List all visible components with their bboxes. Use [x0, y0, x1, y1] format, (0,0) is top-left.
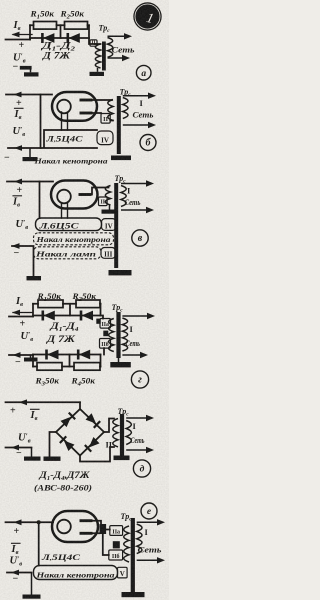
wire diode row1 g [33, 315, 101, 317]
mains arrow bottom a [108, 55, 131, 61]
mains arrow bottom b [123, 122, 156, 128]
transformer primary e [137, 524, 142, 554]
wire plus rail d [6, 399, 81, 405]
ground secondary v [102, 205, 118, 214]
filament kenotron row v [34, 233, 114, 245]
transformer core a [102, 42, 106, 71]
label Uv e [10, 554, 23, 567]
label Iv v [12, 196, 22, 209]
wire II to winding b [110, 120, 113, 122]
transformer core e [131, 518, 135, 592]
winding IIb box g [100, 339, 111, 349]
transformer core g [116, 312, 120, 358]
label Uv d [18, 431, 31, 444]
label Trc v [115, 174, 127, 185]
center tap blob e [113, 541, 120, 548]
wire plus rail v [7, 179, 53, 185]
wire left column v [39, 182, 41, 219]
wire left column b [40, 95, 42, 149]
label minus g [15, 357, 21, 368]
wire plus rail b [6, 92, 52, 98]
label Trc g [112, 303, 124, 314]
label R1 g [36, 292, 62, 303]
wire top row g [33, 303, 101, 305]
label R2 g [71, 292, 97, 303]
transformer secondary b [108, 100, 113, 121]
label minus e [13, 574, 19, 585]
winding V box e [118, 567, 128, 578]
label I primary b [140, 98, 144, 108]
resistor R3 g [37, 363, 62, 371]
diode D2 [68, 33, 80, 43]
label plus a [19, 40, 25, 51]
label minus b [4, 153, 10, 164]
ground output e [23, 573, 41, 599]
ground transformer b [111, 156, 131, 161]
label Set b [133, 111, 154, 120]
winding II box v [99, 197, 108, 206]
anode blob e [100, 524, 107, 534]
wire bridge left d [50, 432, 57, 457]
circle label d [133, 460, 150, 477]
circle label e [141, 503, 157, 519]
label Set e [138, 546, 162, 555]
bracket left bottom g [32, 355, 34, 367]
mains arrow top d [126, 415, 154, 421]
label R1 [29, 10, 55, 21]
bracket left top g [32, 304, 34, 317]
bridge diamond d [56, 409, 104, 456]
wire blob to IIb e [103, 534, 109, 555]
winding II box b [101, 114, 110, 124]
diode D3 g [47, 350, 59, 360]
winding IV box b [97, 131, 113, 145]
label filament lamps v [34, 251, 96, 259]
circle label v [132, 230, 148, 246]
tap IIb wire g [103, 348, 105, 354]
mains arrow top g [122, 313, 155, 319]
label minus d [16, 448, 22, 459]
wire minus e [7, 570, 32, 576]
resistor R1 g [38, 300, 63, 308]
label Set v [125, 198, 141, 207]
bridge diode bottom-left d [60, 436, 75, 451]
transformer core v [114, 183, 118, 268]
ground transformer a [90, 68, 105, 76]
label I primary e [145, 527, 149, 537]
transformer winding secondary a [95, 44, 101, 68]
resistor R2 g [76, 300, 100, 308]
anode leads e [92, 521, 101, 534]
anode lead top b [92, 99, 112, 101]
label Iv g [15, 296, 23, 308]
node mid bottom g [69, 355, 71, 367]
ground output b [23, 148, 38, 161]
label I primary d [133, 421, 137, 431]
label Trc b [120, 88, 132, 99]
label plus e [14, 526, 20, 537]
label I primary v [127, 186, 131, 196]
current arrow Iv a [12, 32, 33, 38]
label plus g [20, 319, 26, 330]
ground transformer v [109, 270, 132, 275]
label AVS d [34, 484, 92, 493]
ground output d [24, 448, 41, 461]
ground output a [24, 70, 39, 77]
resistor R1 [34, 22, 57, 30]
filament loop box e [34, 566, 118, 580]
wire minus d [6, 445, 32, 451]
node mid top g [69, 304, 71, 316]
mains arrow top b [123, 93, 156, 99]
wire plus rail e [6, 519, 54, 525]
tap IIa wire g [101, 316, 104, 319]
circle label a [136, 65, 151, 80]
label tube type b [45, 135, 83, 144]
ground output v [27, 276, 42, 280]
label Trc d [118, 407, 130, 418]
mains arrow bottom v [121, 207, 154, 213]
filament lamps row v [34, 247, 102, 259]
bridge diode bottom-right d [85, 437, 100, 452]
label Set d [131, 436, 145, 445]
wire bridge bottom d [80, 447, 114, 462]
wire bridge right d [104, 419, 114, 433]
label plus b [16, 98, 22, 109]
label plus v [17, 185, 23, 196]
label minus v [14, 248, 20, 259]
label diodes d [38, 470, 90, 482]
ground transformer e [122, 592, 145, 597]
terminal minus bar a [20, 66, 32, 70]
wire diode row2 g [33, 354, 101, 356]
circle label b [140, 135, 156, 151]
tube L1 5C4S b [52, 92, 97, 121]
label D7Zh a [42, 52, 71, 62]
wire plus g [9, 316, 33, 318]
transformer core b [117, 96, 121, 154]
wire minus v [12, 243, 34, 276]
diode D2 g [81, 311, 93, 321]
mains arrow bottom d [126, 447, 154, 453]
winding IIa box g [100, 319, 111, 329]
label filament kenotron v [35, 236, 111, 244]
wire diode row a [30, 37, 89, 39]
label diodes D1-D2 [40, 42, 75, 53]
label tube type e [41, 553, 81, 562]
filament loop b [8, 130, 97, 151]
bracket right top g [100, 304, 102, 316]
label Trc a [99, 24, 111, 35]
label Uv b [13, 125, 26, 138]
wire bottom row g [33, 366, 101, 368]
mains arrow top v [121, 180, 154, 186]
current arrow g [12, 310, 33, 316]
ground output g [24, 355, 38, 362]
transformer core d [120, 414, 124, 456]
winding III box v [101, 248, 116, 259]
label Set a [112, 46, 135, 55]
winding II box a [90, 40, 97, 46]
wire bridge top d [79, 402, 81, 409]
heater leads b [62, 112, 68, 130]
wire blob to IIa e [106, 529, 110, 531]
anode lead bottom b [92, 112, 101, 114]
transformer secondary v [105, 186, 110, 206]
winding IIa box e [110, 526, 123, 536]
anode lead v [92, 188, 109, 195]
label minus a [13, 62, 19, 73]
label R2 [59, 10, 85, 21]
junction dot e [37, 520, 41, 524]
label I primary g [130, 324, 134, 334]
transformer secondary e [124, 526, 129, 562]
label Trc e [121, 512, 133, 523]
tube L 6C5S v [51, 181, 98, 209]
transformer primary g [122, 318, 127, 351]
transformer primary d [126, 421, 131, 445]
wire left column e [38, 522, 40, 565]
label filament e [35, 570, 115, 579]
label D7Zh g [46, 335, 76, 345]
label Set g [126, 339, 141, 348]
winding IIb box e [109, 550, 123, 560]
resistor R4 g [74, 363, 100, 371]
bridge diode top-right d [85, 413, 100, 428]
mains arrow bottom g [122, 352, 148, 358]
label D1-D4 g [49, 322, 78, 333]
node left column a [29, 25, 31, 39]
tube label row v [36, 218, 102, 231]
bridge diode top-left d [60, 413, 75, 428]
ground transformer g [110, 358, 131, 367]
center tap blob g [103, 331, 108, 337]
figure badge 1 [133, 2, 161, 30]
label plus d [10, 406, 16, 417]
transformer primary v [121, 186, 126, 207]
label R4 g [70, 377, 96, 388]
mains arrow top a [108, 33, 133, 39]
label R3 g [34, 377, 60, 388]
label Uv a [13, 51, 26, 64]
transformer secondary g [109, 319, 114, 352]
circle label g [131, 371, 148, 388]
winding IV box v [102, 219, 117, 231]
label filament b [33, 157, 108, 166]
label Iv e [11, 543, 21, 556]
transformer secondary d [113, 419, 118, 447]
label tube type v [38, 222, 79, 231]
diode D1 g [43, 311, 55, 321]
ground bridge d [44, 457, 61, 461]
transformer primary b [123, 98, 128, 119]
label Uv v [16, 218, 29, 231]
resistor R2 [65, 22, 88, 30]
wire top row a [30, 24, 89, 26]
label Iv d [30, 409, 40, 422]
label II d [106, 440, 113, 450]
junction blob g [96, 319, 100, 324]
mains arrow top e [137, 519, 165, 525]
node mid column a [60, 25, 62, 38]
diode D1 [42, 33, 54, 43]
wire output plus a [6, 39, 31, 41]
wire minus g [9, 352, 33, 358]
tube L1 5C4S e [52, 511, 98, 542]
transformer winding primary a [108, 38, 113, 58]
mains arrow bottom e [137, 557, 165, 563]
label Uv g [21, 330, 34, 343]
label Iv a [13, 20, 21, 32]
diode D4 g [78, 350, 90, 360]
bracket right bottom g [100, 355, 102, 367]
label Iv b [14, 108, 24, 121]
node right column a [89, 25, 96, 44]
heater leads v [62, 203, 68, 218]
ground transformer d [114, 456, 130, 461]
